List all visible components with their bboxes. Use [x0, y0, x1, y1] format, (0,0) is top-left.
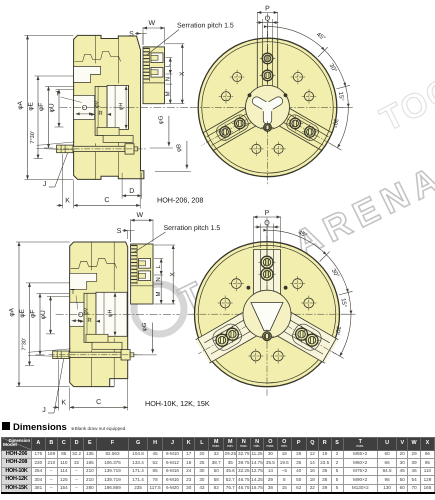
section HOH-10K : J label and leader — [42, 359, 63, 414]
front view top : slot vertical centerline — [267, 13, 269, 70]
front view bottom : slot centerline at 330 deg — [269, 315, 336, 354]
svg-text:J: J — [42, 407, 46, 414]
front view bottom : slot vertical centerline — [266, 218, 268, 279]
front view top : chamfer rim circle — [202, 42, 333, 173]
front view bottom : jaw guide slot at 210 deg — [196, 309, 263, 363]
svg-text:φG: φG — [141, 322, 148, 331]
svg-text:φE: φE — [28, 101, 35, 110]
front view top : jaw tenon lines at 330 deg — [276, 118, 324, 146]
front view bottom : Q dimension — [255, 220, 280, 248]
section HOH-10K : W dimension — [131, 212, 153, 242]
front view top : slot centerline at 210 deg — [201, 108, 265, 145]
section view HOH-206 : mounting bolt J head — [57, 145, 73, 153]
section HOH-10K : dim phi E — [19, 283, 31, 366]
svg-text:φA: φA — [17, 100, 24, 109]
front view bottom : mounting bolt hole at 15 deg — [301, 296, 316, 311]
svg-text:N: N — [164, 77, 171, 81]
svg-text:C: C — [104, 197, 109, 204]
section HOH-206 : dim phi B — [155, 141, 191, 172]
svg-text:Q: Q — [264, 220, 270, 227]
front view bottom : angular dimension arc — [263, 226, 355, 359]
section HOH-206 : dim M — [164, 84, 172, 104]
section HOH-206 : O dimension — [76, 105, 94, 116]
section HOH-206 : W dimension — [143, 20, 165, 45]
front view bottom : slot centerline at 90 deg — [266, 235, 268, 313]
svg-text:R: R — [98, 110, 103, 117]
front view top : locating pins — [248, 93, 288, 97]
section view HOH-10K : bolt nut — [121, 350, 130, 360]
front view top : mounting bolt hole at 135 deg — [230, 70, 244, 84]
svg-text:D: D — [129, 188, 134, 195]
section HOH-10K : extension lines for left dims — [16, 242, 70, 387]
front view bottom : slot centerline at 210 deg — [198, 315, 265, 354]
front view top : mounting bolt hole at 15 deg — [302, 89, 316, 103]
section HOH-206 : taper angle 7 30 label — [30, 131, 75, 150]
front view top : angle labels — [315, 31, 345, 129]
svg-text:T: T — [71, 289, 75, 296]
svg-text:Serration pitch 1.5: Serration pitch 1.5 — [164, 224, 221, 232]
section view HOH-206 : serration teeth — [144, 48, 150, 82]
section view HOH-206 : chuck axis centerline — [60, 106, 193, 108]
front view top : mounting bolt hole at 45 deg — [291, 70, 305, 84]
section view HOH-206 : body front counterbore lines — [128, 85, 130, 129]
front view top : jaw guide slot at 330 deg — [273, 122, 323, 151]
front view bottom : jaw tenon lines at 90 deg — [273, 250, 275, 302]
front view bottom : jaw guide slot at 90 deg — [253, 250, 280, 302]
section view HOH-206 : bolt nut — [125, 144, 134, 154]
front view top : mounting bolt hole at 285 deg — [271, 142, 285, 156]
svg-text:φV: φV — [84, 307, 90, 315]
svg-text:K: K — [65, 197, 70, 204]
section view HOH-206 : jaw clamping screw sockets — [151, 53, 163, 77]
section view HOH-10K : center bore — [70, 302, 91, 326]
section HOH-10K : dim phi G — [134, 322, 157, 355]
svg-text:15°: 15° — [337, 91, 345, 102]
section HOH-206 : dim phi E — [28, 76, 40, 159]
front view top : horizontal centerline — [191, 106, 344, 108]
section view HOH-206 : master jaw and soft jaw block — [143, 47, 165, 104]
front view bottom : chuck face circle — [195, 242, 340, 387]
svg-text:T: T — [56, 91, 60, 98]
section HOH-10K : R dimension — [80, 317, 100, 324]
svg-text:J: J — [43, 181, 47, 188]
front view top : slot centerline at 330 deg — [269, 108, 333, 145]
section HOH-10K : dim phi A — [9, 242, 21, 387]
section view HOH-10K : master jaw and soft jaw block — [131, 244, 153, 304]
front view bottom : vertical centerline — [266, 236, 268, 396]
svg-text:7°30': 7°30' — [22, 338, 28, 350]
svg-text:φV: φV — [95, 100, 101, 108]
section view HOH-10K : body front counterbore lines — [126, 292, 128, 336]
section view HOH-10K : body front joint line — [113, 242, 115, 290]
svg-text:X: X — [179, 71, 186, 76]
front view top : mounting bolt hole at 255 deg — [249, 142, 263, 156]
svg-text:φH: φH — [108, 310, 114, 318]
section view HOH-10K : wedge plunger — [84, 293, 96, 342]
svg-text:φA: φA — [9, 307, 16, 316]
section HOH-10K : serration pitch label — [135, 224, 221, 252]
section view HOH-10K : serration teeth — [131, 245, 137, 284]
section HOH-206 : dim C — [74, 171, 141, 208]
svg-text:P: P — [265, 6, 270, 13]
section view HOH-10K : back plate joint line — [91, 242, 93, 270]
front view bottom : mounting bolt hole at 135 deg — [229, 276, 244, 291]
front view bottom : jaw screws at 210 deg — [224, 326, 241, 343]
svg-text:C: C — [96, 399, 101, 406]
front view bottom : jaw screws at 90 deg — [258, 266, 275, 283]
svg-text:φU: φU — [49, 103, 56, 112]
svg-text:30°: 30° — [330, 268, 341, 280]
front view top : jaw guide slot at 210 deg — [202, 105, 252, 134]
svg-text:O: O — [82, 105, 88, 112]
section view HOH-206 : back plate joint line — [95, 35, 97, 63]
section HOH-10K : S dimension — [117, 228, 135, 242]
front view top : slot centerline at 90 deg — [267, 31, 269, 105]
svg-text:Serration pitch 1.5: Serration pitch 1.5 — [177, 22, 234, 30]
front view top : jaw tenon lines at 210 deg — [207, 109, 255, 137]
section view HOH-206 : lower mechanism blocks — [97, 127, 119, 135]
front view bottom : center screw — [260, 329, 274, 343]
front view bottom : jaw nut outline at 330 deg — [289, 321, 324, 353]
section HOH-10K : dim X — [154, 245, 177, 304]
section HOH-206 : serration pitch label — [147, 22, 234, 55]
front view top : jaw nut outline at 210 deg — [214, 112, 251, 142]
section view HOH-10K : casting steps outline — [71, 258, 117, 268]
svg-text:φE: φE — [19, 308, 26, 317]
section view HOH-10K : lower mechanism blocks — [86, 334, 108, 342]
svg-text:W: W — [136, 212, 143, 219]
svg-text:TOOL: TOOL — [374, 59, 435, 139]
svg-text:S: S — [129, 31, 134, 38]
front view top : angular dimension arc — [264, 22, 353, 150]
svg-text:45°: 45° — [315, 31, 327, 42]
front view top : jaw screws at 210 deg — [232, 116, 248, 132]
svg-text:K: K — [61, 399, 66, 406]
svg-text:M: M — [155, 292, 162, 297]
section HOH-206 : extension lines for left dims — [25, 35, 74, 179]
svg-text:M: M — [164, 91, 171, 96]
front view bottom : mounting bolt hole at 45 deg — [290, 276, 305, 291]
front view bottom : mounting bolt hole at 165 deg — [218, 296, 233, 311]
front view top : jaw guide slot at 90 deg — [277, 38, 279, 95]
svg-text:HOH-206, 208: HOH-206, 208 — [157, 196, 203, 205]
svg-text:W: W — [148, 20, 155, 27]
section HOH-10K : dim N — [155, 275, 162, 284]
section HOH-206 : dim phi F — [38, 87, 50, 149]
section HOH-206 : J label and leader — [43, 153, 68, 188]
front view bottom : jaw guide slot at 330 deg — [272, 309, 339, 363]
front view top : P dimension — [257, 6, 277, 41]
front view bottom : jaw tenon lines at 330 deg — [275, 326, 323, 354]
section HOH-10K : taper angle 7 30 label — [22, 338, 71, 357]
section HOH-10K : dim phi U — [40, 296, 52, 334]
section HOH-206 : dim phi G — [150, 115, 173, 148]
section view HOH-206 : body front joint line — [117, 35, 119, 83]
svg-text:N: N — [155, 277, 162, 281]
section HOH-10K : dim C — [70, 379, 128, 411]
section view HOH-10K : chuck axis centerline — [56, 313, 180, 315]
front view bottom : locating pins — [247, 286, 288, 290]
watermark ring — [134, 284, 184, 334]
section view HOH-10K : stepped front bore — [70, 273, 97, 289]
section view HOH-10K : wedge chamber — [96, 292, 127, 336]
section HOH-10K : T label — [71, 289, 78, 309]
section view HOH-206 : center bore — [74, 95, 95, 119]
section HOH-206 : dim X — [166, 44, 186, 104]
svg-text:X: X — [170, 272, 177, 277]
front view top : jaw screws at 90 deg — [260, 68, 276, 84]
svg-text:φG: φG — [157, 115, 164, 124]
svg-text:φH: φH — [119, 103, 125, 111]
front view top : center boss circle — [246, 85, 290, 129]
front view bottom : jaw nut outline at 210 deg — [210, 321, 245, 353]
svg-text:φU: φU — [40, 310, 47, 319]
front view top : vertical centerline — [267, 32, 269, 186]
section view HOH-206 : stepped front bore — [74, 66, 101, 82]
section HOH-206 : dim phi A — [17, 35, 29, 179]
front view bottom : center boss circle — [243, 290, 291, 338]
front view top : mounting bolt hole at 165 deg — [219, 89, 233, 103]
section view HOH-206 : casting steps outline — [75, 51, 121, 61]
section view HOH-10K : mounting bolt J head — [53, 351, 69, 359]
svg-text:P: P — [265, 210, 270, 217]
section HOH-206 : dim K — [57, 154, 74, 209]
section view HOH-206 : bolt thread stub — [134, 147, 138, 151]
front view top : jaw screws at 330 deg — [287, 116, 303, 132]
svg-text:15°: 15° — [340, 298, 348, 309]
section HOH-206 : R dimension — [91, 110, 111, 117]
front view top : center screw — [261, 121, 274, 134]
svg-text:φF: φF — [30, 310, 37, 318]
svg-text:R: R — [87, 317, 92, 324]
section view HOH-10K : chuck body — [70, 242, 128, 387]
front view bottom : chamfer rim circle — [198, 245, 336, 383]
front view top : jaw tenon lines at 90 deg — [272, 38, 274, 95]
section view HOH-206 : wedge plunger — [95, 86, 107, 135]
section HOH-10K : dim phi F — [30, 293, 42, 355]
front view bottom : center wedge piece — [251, 303, 283, 331]
front view bottom : mounting bolt hole at 255 deg — [248, 349, 263, 364]
section HOH-206 : T label — [56, 91, 82, 103]
section HOH-206 : dim phi U — [49, 90, 61, 128]
front view top : Q dimension — [257, 16, 279, 41]
section HOH-206 : dim L — [164, 58, 172, 74]
front view bottom : horizontal centerline — [188, 313, 347, 315]
section HOH-10K : dim M — [155, 284, 163, 304]
front view bottom : mounting bolt hole at 285 deg — [271, 349, 286, 364]
section view HOH-206 : wedge chamber — [107, 85, 128, 129]
front view bottom : P dimension — [253, 210, 280, 248]
section HOH-10K : dim K — [53, 360, 70, 411]
front view top : chuck face circle — [198, 38, 337, 177]
section HOH-206 : dim D — [122, 173, 141, 199]
svg-text:φB: φB — [175, 144, 182, 152]
svg-text:30°: 30° — [328, 62, 339, 74]
section view HOH-206 : bolt axis centerline — [53, 148, 146, 150]
svg-text:HOH-10K, 12K, 15K: HOH-10K, 12K, 15K — [145, 399, 210, 408]
front view top : jaw nut outline at 330 deg — [284, 112, 321, 142]
front view top : center wedge piece — [251, 95, 284, 124]
section HOH-206 : S dimension — [129, 31, 147, 45]
svg-text:Q: Q — [265, 16, 271, 23]
section view HOH-206 : bolt shaft — [73, 146, 125, 151]
svg-text:φF: φF — [38, 103, 45, 111]
front view bottom : jaw tenon lines at 210 deg — [204, 315, 252, 343]
section HOH-10K : dim L — [155, 259, 163, 276]
section view HOH-10K : jaw clamping screw sockets — [139, 259, 151, 281]
section view HOH-206 : chuck body — [74, 35, 144, 179]
section view HOH-10K : bolt axis centerline — [49, 354, 142, 356]
front view bottom : jaw screws at 330 deg — [293, 326, 310, 343]
section HOH-206 : dim N — [164, 74, 171, 84]
section view HOH-10K : bolt shaft — [69, 352, 121, 357]
section view HOH-10K : bolt thread stub — [130, 353, 134, 357]
front view bottom : angle labels — [297, 229, 348, 336]
svg-text:7°30': 7°30' — [30, 131, 36, 143]
section HOH-10K : phi H dimension — [108, 293, 117, 336]
section HOH-206 : phi H dimension — [119, 86, 128, 129]
section HOH-10K : O dimension — [72, 312, 84, 323]
svg-text:S: S — [117, 228, 122, 235]
